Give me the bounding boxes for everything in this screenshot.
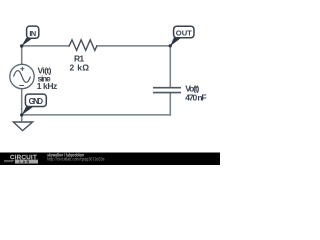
svg-text:2 kΩ: 2 kΩ — [70, 63, 90, 73]
svg-text:GND: GND — [29, 97, 44, 106]
svg-text:http: / /circuitlab.com/cpqq36: http: / /circuitlab.com/cpqq3672e53s — [47, 157, 105, 162]
svg-text:IN: IN — [29, 29, 35, 38]
svg-text:1 kHz: 1 kHz — [37, 81, 58, 91]
svg-text:LAB: LAB — [19, 160, 30, 164]
svg-text:OUT: OUT — [176, 28, 192, 37]
svg-text:470 nF: 470 nF — [185, 92, 206, 102]
